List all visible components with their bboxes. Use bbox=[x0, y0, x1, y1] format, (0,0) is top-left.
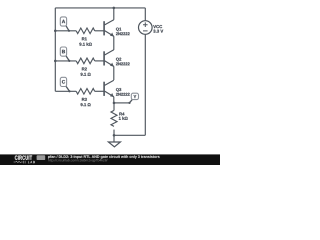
label VCC bbox=[153, 25, 162, 28]
node junction R4 / ground / bottom rail bbox=[113, 134, 116, 137]
wire R2 to transistor base bbox=[95, 60, 105, 62]
wire Q3 emitter to node Y bbox=[113, 97, 115, 103]
wire row lead-in (R1) bbox=[55, 30, 76, 32]
resistor R3 bbox=[76, 89, 94, 95]
label R2 bbox=[82, 67, 87, 70]
caption title bbox=[48, 155, 160, 158]
label Q2 bbox=[116, 58, 121, 62]
wire Q1 collector to top rail bbox=[113, 8, 115, 20]
wire row lead-in (R2) bbox=[55, 60, 76, 62]
transistor Q1 2N2222 bbox=[105, 20, 114, 25]
node junction Y / R4 bbox=[113, 102, 116, 105]
wire right rail upper bbox=[144, 8, 146, 21]
wire Q1 emitter to Q2 collector bbox=[113, 36, 115, 50]
voltage source V1 VCC bbox=[139, 21, 153, 35]
wire top rail bbox=[55, 7, 145, 9]
wire bottom rail bbox=[114, 134, 145, 136]
node junction top rail / Q1 collector bbox=[113, 7, 116, 10]
label Q1 bbox=[116, 28, 121, 32]
wire right rail lower bbox=[144, 34, 146, 135]
transistor Q2 2N2222 bbox=[105, 50, 114, 55]
wire ground stub bbox=[113, 135, 115, 142]
resistor R1 bbox=[76, 28, 94, 34]
label 1 kOhm bbox=[119, 117, 128, 120]
resistor R2 bbox=[76, 58, 94, 64]
label 2N2222 (Q2) bbox=[116, 62, 130, 65]
transistor Q3 2N2222 bbox=[105, 80, 114, 85]
wire Q2 emitter to Q3 collector bbox=[113, 66, 115, 80]
label R4 bbox=[119, 113, 124, 116]
caption bar bbox=[0, 154, 220, 165]
logo CircuitLab bbox=[15, 155, 32, 159]
caption url bbox=[48, 159, 107, 162]
label 2N2222 (Q3) bbox=[116, 93, 130, 96]
label R1 bbox=[82, 37, 87, 40]
node B input flag bbox=[66, 56, 69, 61]
resistor R4 bbox=[111, 110, 117, 126]
node A input flag bbox=[66, 26, 69, 31]
node C input flag bbox=[66, 86, 70, 91]
wire R1 to transistor base bbox=[95, 30, 105, 32]
node Y output flag bbox=[130, 99, 133, 103]
label 9.1 kOhm bbox=[79, 43, 91, 46]
label 9.1 Ohm bbox=[81, 73, 91, 76]
wire R4 to bottom rail bbox=[113, 130, 115, 136]
node junction left rail row B bbox=[54, 60, 57, 63]
wire R3 to transistor base bbox=[95, 90, 105, 92]
wire left rail bbox=[54, 8, 56, 91]
label 2N2222 (Q1) bbox=[116, 32, 130, 35]
wire row lead-in (R3) bbox=[55, 90, 76, 92]
ground bbox=[108, 142, 120, 147]
wire node Y horizontal bbox=[114, 102, 130, 104]
label 3.3 V bbox=[153, 30, 163, 33]
label R3 bbox=[82, 98, 87, 101]
label 9.1 Ohm bbox=[81, 103, 91, 106]
label Q3 bbox=[116, 88, 121, 92]
wire node Y to R4 bbox=[113, 103, 115, 111]
node junction left rail row A bbox=[54, 30, 57, 33]
